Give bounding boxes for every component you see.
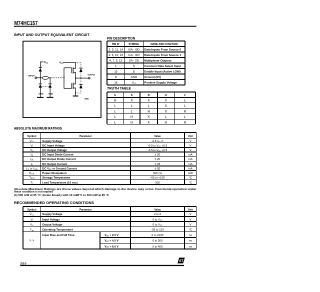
- svg-text:°C: °C: [189, 180, 192, 184]
- svg-text:Data Inputs From Source 0: Data Inputs From Source 0: [144, 48, 181, 52]
- transistor Q1 drain stub: [73, 72, 75, 78]
- svg-text:0 to 500: 0 to 500: [152, 239, 163, 243]
- resistor R1 (input series): [42, 76, 48, 79]
- svg-text:L: L: [131, 104, 133, 108]
- svg-text:Data Inputs From Source 1: Data Inputs From Source 1: [144, 53, 181, 57]
- wire gate bottom: [64, 88, 72, 90]
- svg-text:mA: mA: [188, 157, 192, 161]
- wire (dashed) to gate rail: [51, 77, 64, 79]
- svg-text:L: L: [184, 99, 186, 103]
- svg-text:15: 15: [114, 70, 118, 74]
- svg-text:Parameter: Parameter: [79, 135, 91, 138]
- svg-text:these condition is not implied: these condition is not implied: [14, 190, 54, 193]
- junction input node: [40, 77, 41, 78]
- svg-text:Parameter: Parameter: [79, 208, 91, 211]
- svg-text:E: E: [133, 70, 135, 74]
- svg-text:Enable Input (Active LOW): Enable Input (Active LOW): [144, 70, 180, 74]
- svg-text:V: V: [189, 139, 191, 143]
- svg-text:± 20: ± 20: [155, 157, 161, 161]
- svg-text:Operating Temperature: Operating Temperature: [42, 227, 73, 231]
- svg-text:Input Rise and Fall Time: Input Rise and Fall Time: [42, 233, 75, 237]
- diode D2 (GND to input clamp): [39, 83, 42, 85]
- wire (dashed) D4 to ground rail: [80, 88, 82, 93]
- svg-text:300: 300: [155, 180, 160, 184]
- wire D2 to ground: [39, 88, 41, 98]
- svg-text:DC Input Voltage: DC Input Voltage: [42, 143, 65, 147]
- svg-text:GND: GND: [48, 93, 53, 95]
- svg-text:OUTPUT: OUTPUT: [88, 74, 96, 76]
- svg-text:2 to 6: 2 to 6: [154, 212, 161, 216]
- svg-text:mW: mW: [188, 171, 193, 175]
- svg-text:± 20: ± 20: [155, 153, 161, 157]
- svg-text:Multiplexer Outputs: Multiplexer Outputs: [144, 59, 172, 63]
- svg-text:(1) 500 mW at 65 °C; derate li: (1) 500 mW at 65 °C; derate linearly wit…: [14, 194, 109, 197]
- svg-text:V: V: [189, 143, 191, 147]
- transistor Q1 (PMOS) gate bar: [71, 68, 73, 73]
- svg-text:Lead Temperature (10 sec): Lead Temperature (10 sec): [42, 180, 77, 184]
- svg-text:L: L: [184, 104, 186, 108]
- svg-text:Value: Value: [154, 208, 161, 211]
- svg-text:Symbol: Symbol: [27, 135, 36, 138]
- transistor Q2 (NMOS) gate bar: [71, 83, 73, 88]
- svg-text:V: V: [189, 222, 191, 226]
- wire (dashed) rail to D3: [76, 62, 81, 64]
- svg-text:L: L: [114, 104, 116, 108]
- svg-text:0 to 400: 0 to 400: [152, 244, 163, 248]
- ground symbol 2: [47, 96, 54, 98]
- wire input terminal to junction: [37, 77, 43, 79]
- svg-text:GND: GND: [39, 93, 44, 95]
- svg-text:DC Input Diode Current: DC Input Diode Current: [42, 153, 73, 157]
- svg-text:3, 6, 10, 13: 3, 6, 10, 13: [109, 53, 124, 57]
- wire junction2 to D5: [49, 78, 51, 84]
- svg-text:INPUT AND OUTPUT EQUIVALENT CI: INPUT AND OUTPUT EQUIVALENT CIRCUIT: [14, 33, 90, 37]
- transistor Q1 channel bar: [72, 67, 74, 73]
- svg-text:L: L: [148, 104, 150, 108]
- svg-text:4, 7, 9, 12: 4, 7, 9, 12: [109, 59, 122, 63]
- svg-text:ABSOLUTE MAXIMUM RATINGS: ABSOLUTE MAXIMUM RATINGS: [14, 126, 62, 130]
- svg-text:2/10: 2/10: [20, 261, 26, 265]
- svg-text:L: L: [184, 115, 186, 119]
- svg-text:-55 to 125: -55 to 125: [151, 227, 164, 231]
- svg-text:Unit: Unit: [188, 135, 193, 138]
- svg-text:L: L: [131, 109, 133, 113]
- svg-text:± 50: ± 50: [155, 166, 161, 170]
- svg-text:I0A - I0D: I0A - I0D: [128, 48, 139, 52]
- wire to ground symbol: [75, 93, 77, 96]
- svg-text:ZA - ZD: ZA - ZD: [129, 59, 139, 63]
- svg-text:GND: GND: [84, 98, 89, 100]
- junction D3-D4 column: [80, 78, 81, 79]
- svg-text:L: L: [165, 115, 167, 119]
- wire R1 to junction 2: [49, 77, 51, 79]
- svg-text:± 25: ± 25: [155, 162, 161, 166]
- diode D5 (GND to node clamp): [49, 83, 52, 85]
- svg-text:mA: mA: [188, 166, 192, 170]
- svg-text:L: L: [114, 115, 116, 119]
- transistor Q2 drain stub: [73, 78, 75, 84]
- svg-text:°C: °C: [189, 227, 192, 231]
- junction ground: [75, 92, 76, 93]
- wire junction to D2: [39, 78, 41, 84]
- svg-text:S: S: [133, 64, 135, 68]
- diode D3 (output to Vcc clamp): [79, 67, 82, 69]
- svg-text:GND: GND: [131, 75, 137, 79]
- svg-text:0 to 1000: 0 to 1000: [152, 233, 164, 237]
- junction gate rail / input wire: [63, 77, 64, 78]
- node input terminal: [35, 77, 37, 79]
- svg-text:I1A - I1D: I1A - I1D: [128, 53, 139, 57]
- svg-text:Value: Value: [154, 135, 161, 138]
- svg-text:°C: °C: [189, 176, 192, 180]
- svg-text:PIN DESCRIPTION: PIN DESCRIPTION: [107, 37, 136, 41]
- wire gate top: [64, 67, 72, 69]
- svg-text:Symbol: Symbol: [27, 208, 36, 211]
- svg-text:500 (1): 500 (1): [153, 171, 162, 175]
- wire gate rail: [63, 68, 65, 89]
- diode D4 (GND to output clamp): [79, 83, 82, 85]
- svg-text:2, 5, 11, 14: 2, 5, 11, 14: [109, 48, 124, 52]
- junction 2: [50, 77, 51, 78]
- svg-text:-65 to +150: -65 to +150: [150, 176, 165, 180]
- svg-text:Common Data Select Input: Common Data Select Input: [144, 64, 181, 68]
- svg-text:DC Output Current: DC Output Current: [42, 162, 67, 166]
- wire Vcc rail: [63, 62, 76, 64]
- svg-text:Positive Supply Voltage: Positive Supply Voltage: [144, 81, 177, 85]
- wire (dashed) ground link: [76, 92, 81, 94]
- svg-text:SYMBOL: SYMBOL: [129, 43, 140, 46]
- svg-text:mA: mA: [188, 153, 192, 157]
- svg-text:V: V: [189, 217, 191, 221]
- svg-text:TRUTH TABLE: TRUTH TABLE: [107, 86, 131, 90]
- transistor Q2 source stub: [73, 88, 75, 93]
- svg-text:RECOMMENDED OPERATING CONDITIO: RECOMMENDED OPERATING CONDITIONS: [14, 201, 94, 205]
- svg-text:Supply Voltage: Supply Voltage: [42, 139, 62, 143]
- svg-text:V: V: [189, 148, 191, 152]
- wire Vcc to D1: [40, 62, 43, 68]
- wire (dashed) D2-D5 link: [42, 86, 49, 88]
- svg-text:Supply Voltage: Supply Voltage: [42, 212, 62, 216]
- wire (dashed) D3 to output wire: [80, 72, 82, 78]
- wire D1 anode to input node: [39, 71, 41, 77]
- svg-text:DC Output Diode Current: DC Output Diode Current: [42, 157, 75, 161]
- transistor Q2 channel bar: [72, 83, 74, 89]
- svg-text:Ground (0V): Ground (0V): [144, 75, 161, 79]
- ground symbol 1: [37, 96, 44, 98]
- svg-text:Power Dissipation: Power Dissipation: [42, 171, 67, 175]
- svg-text:V: V: [189, 212, 191, 216]
- wire output: [76, 77, 89, 79]
- node output terminal: [88, 77, 90, 79]
- junction drain/output: [75, 78, 76, 79]
- wire D5 to ground: [49, 88, 51, 98]
- svg-text:DC Output Voltage: DC Output Voltage: [42, 148, 67, 152]
- svg-text:Storage Temperature: Storage Temperature: [42, 176, 70, 180]
- svg-text:PIN N°: PIN N°: [112, 43, 120, 46]
- wire (dashed) output to D4: [80, 78, 82, 84]
- svg-text:mA: mA: [188, 162, 192, 166]
- svg-text:Unit: Unit: [188, 208, 193, 211]
- svg-text:16: 16: [114, 81, 118, 85]
- svg-text:Input Voltage: Input Voltage: [42, 217, 60, 221]
- svg-text:Output Voltage: Output Voltage: [42, 222, 62, 226]
- svg-text:-0.5 to +7: -0.5 to +7: [152, 139, 164, 143]
- svg-text:L: L: [114, 109, 116, 113]
- svg-text:NAME AND FUNCTION: NAME AND FUNCTION: [151, 43, 178, 46]
- svg-text:INPUT: INPUT: [28, 76, 35, 78]
- wire rail to Q1 source: [73, 63, 75, 69]
- ground symbol 3: [73, 95, 78, 97]
- svg-text:L: L: [114, 120, 116, 124]
- diode D1 (input to Vcc clamp): [39, 67, 42, 69]
